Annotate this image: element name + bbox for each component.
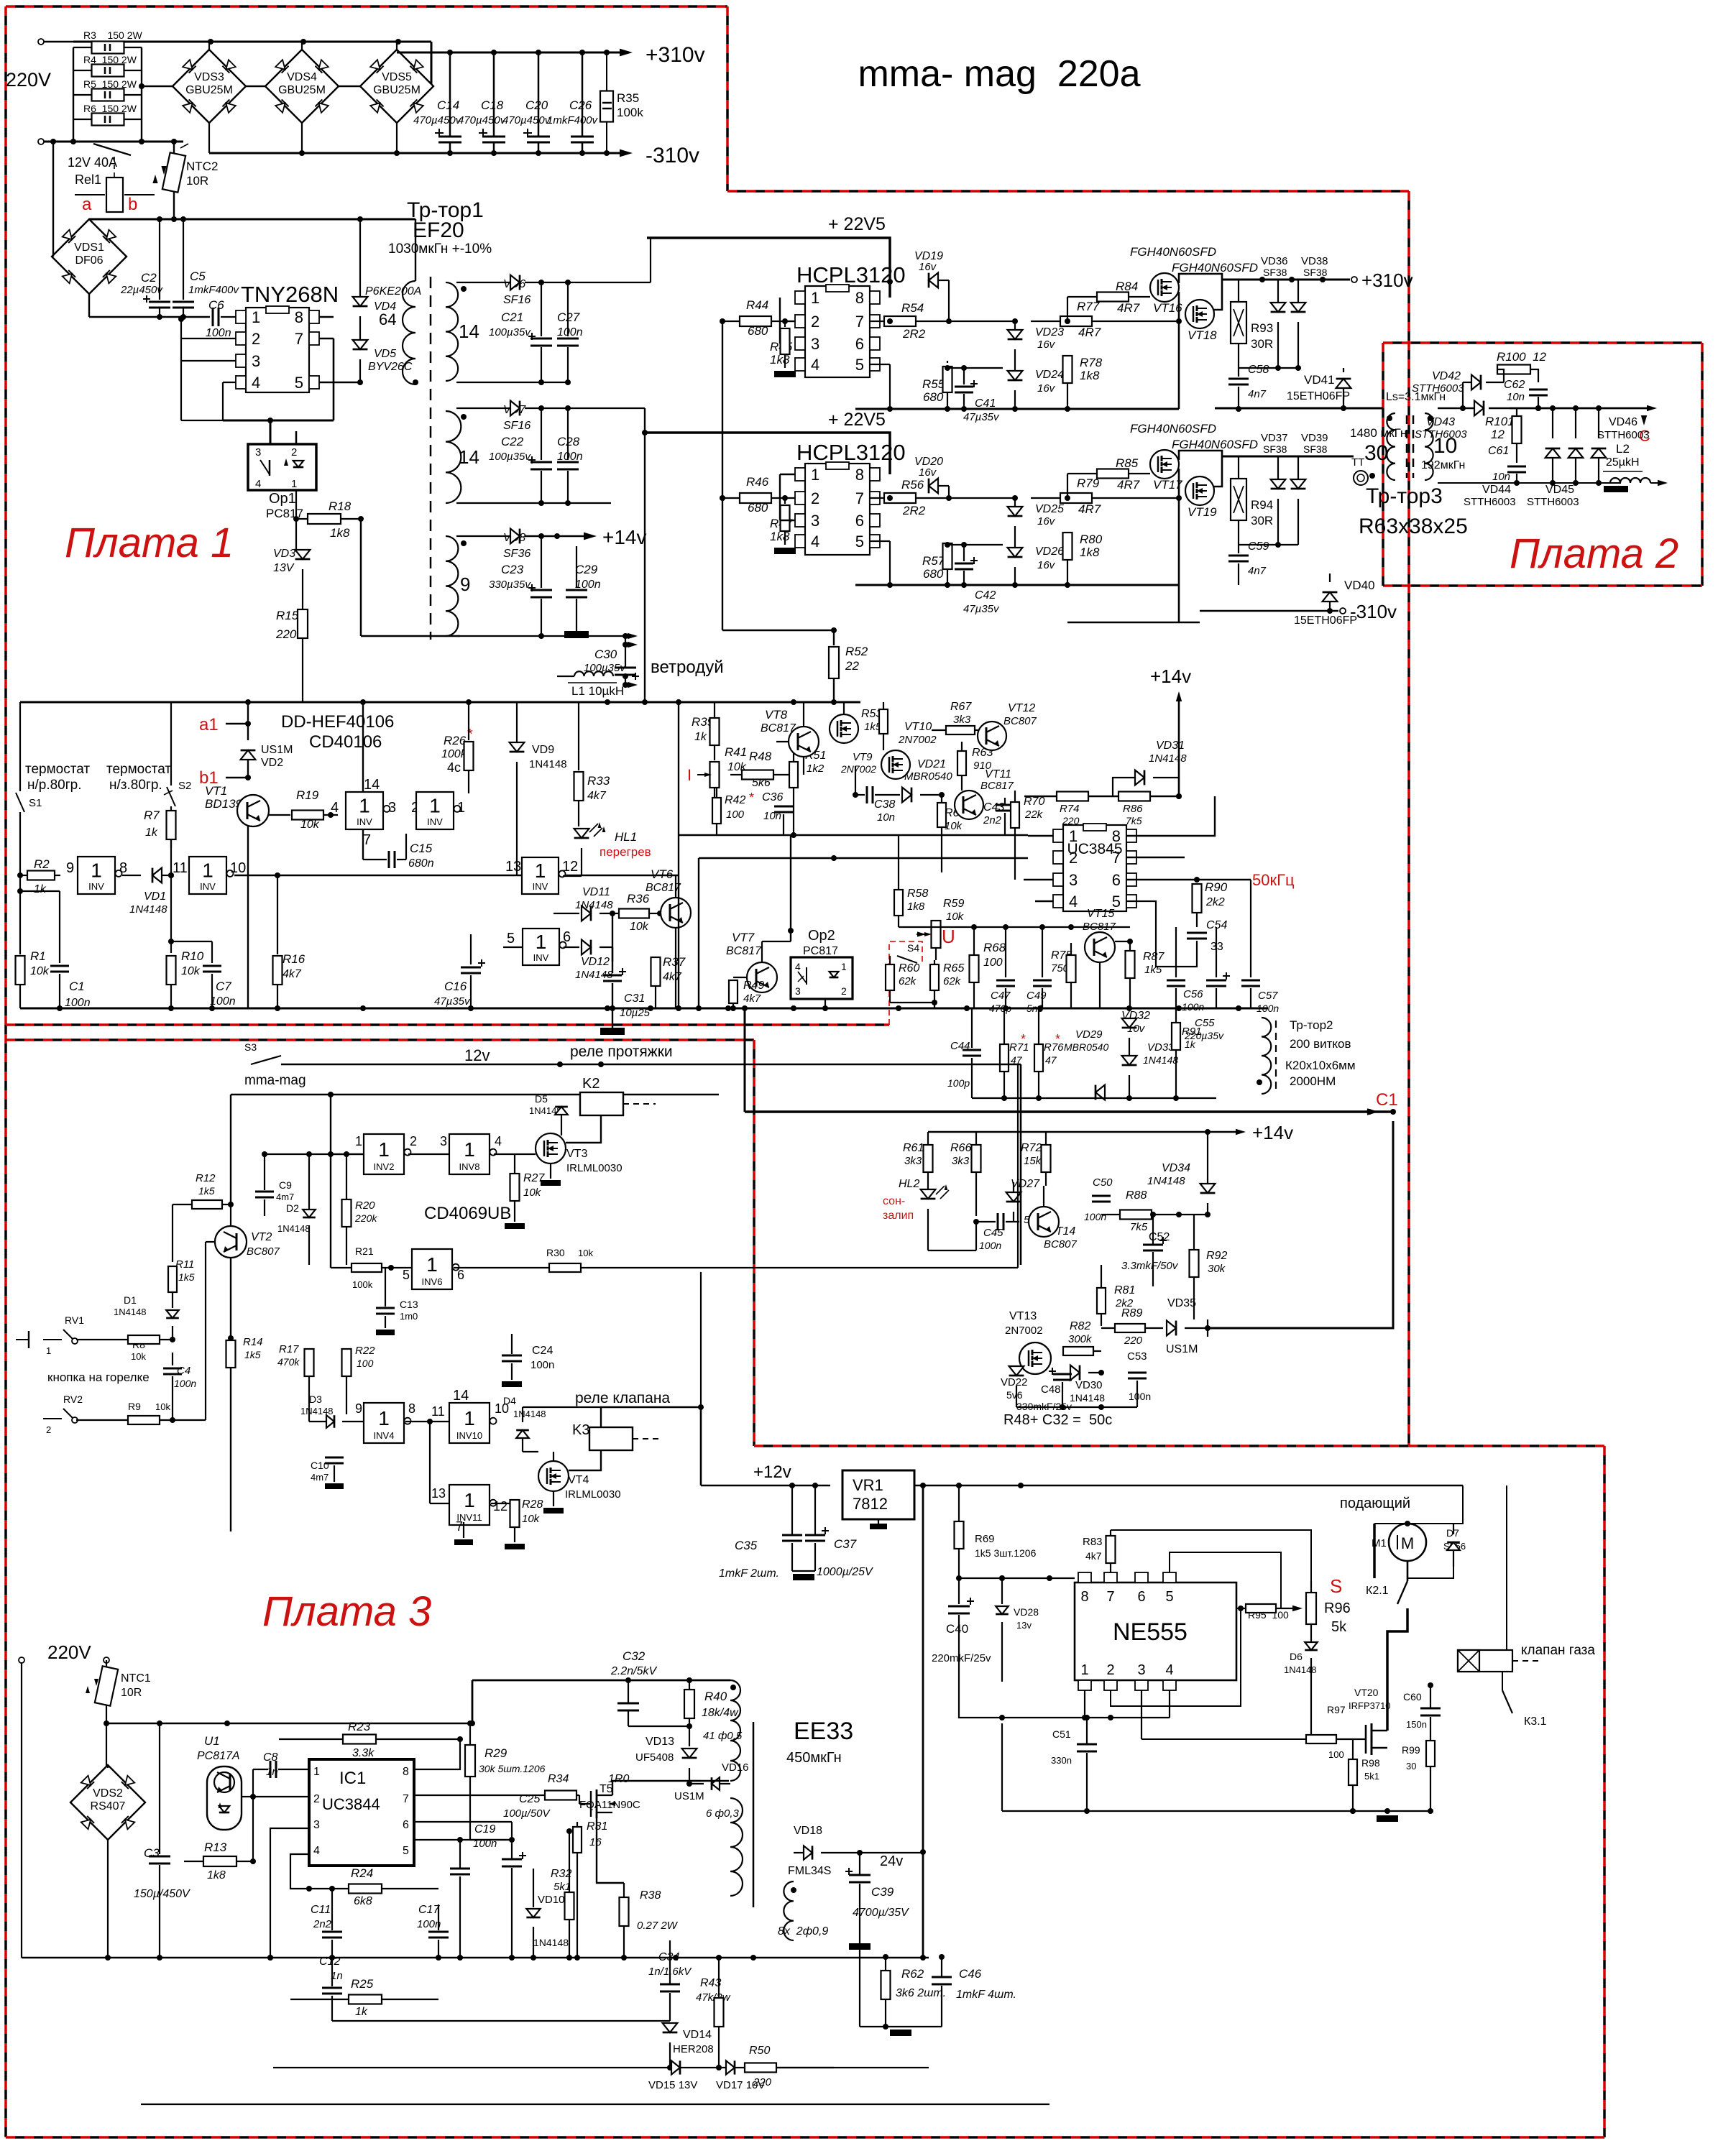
wire long bottom rail [22, 1957, 929, 1959]
svg-text:C24: C24 [532, 1345, 553, 1357]
wire bottom rail Плата1 mid [20, 1008, 1268, 1010]
svg-text:4R7: 4R7 [1117, 301, 1140, 315]
wire lower long rails [141, 2104, 1049, 2105]
bridge rectifier VDS2 RS407 [70, 1765, 145, 1840]
wire NE555 pin2 loop R95 [1111, 1608, 1241, 1706]
ground bar Плата2 [1604, 486, 1628, 492]
svg-text:1k: 1k [1185, 1038, 1196, 1050]
svg-text:C38: C38 [874, 798, 895, 811]
capacitor C47 470p [1005, 927, 1006, 977]
wire VD35 node to right [1207, 1319, 1208, 1337]
wire VT17/19 sources down to -310 bus [1178, 469, 1180, 622]
svg-text:220V: 220V [6, 69, 51, 91]
wire 220V left input down [21, 1663, 22, 1958]
svg-text:R11: R11 [175, 1258, 194, 1271]
svg-text:VD25: VD25 [1035, 503, 1064, 515]
bridge rectifier VDS1 DF06 [52, 219, 127, 294]
svg-text:BC807: BC807 [1003, 715, 1037, 727]
svg-text:3: 3 [795, 985, 801, 997]
svg-text:HER208: HER208 [673, 2043, 714, 2055]
svg-text:2n2: 2n2 [313, 1918, 332, 1930]
transistor VT3 IRLML0030 mosfet [536, 1133, 566, 1164]
label +14v arrow [584, 533, 597, 540]
svg-text:US1M: US1M [674, 1790, 704, 1802]
svg-text:SF38: SF38 [1263, 443, 1287, 455]
wire resistor ladder rails [73, 47, 74, 142]
svg-text:3: 3 [255, 446, 261, 459]
svg-text:1N4148: 1N4148 [1070, 1392, 1105, 1404]
svg-text:1m0: 1m0 [400, 1311, 418, 1322]
svg-text:6: 6 [1137, 1589, 1145, 1605]
svg-text:U1: U1 [204, 1734, 220, 1748]
NE555 pins bottom 1 2 3 4 [1078, 1680, 1091, 1690]
board outline Плата 3 top-right horizontal [754, 1445, 1604, 1447]
svg-text:a1: a1 [199, 715, 219, 734]
svg-text:INV: INV [427, 816, 443, 827]
svg-text:47µ35v: 47µ35v [963, 411, 1000, 423]
svg-text:+ 22V5: + 22V5 [828, 410, 886, 430]
svg-text:R84: R84 [1116, 280, 1138, 293]
wire UC3845 pin8 line [1126, 796, 1215, 836]
wire bottom of C46/R62 [860, 2026, 942, 2027]
svg-text:Op1: Op1 [269, 491, 296, 507]
svg-text:1: 1 [429, 795, 441, 817]
svg-text:VT15: VT15 [1087, 908, 1114, 920]
svg-text:9: 9 [66, 860, 74, 876]
wire mid rail 2812 [332, 2020, 670, 2022]
svg-text:7: 7 [363, 832, 371, 848]
svg-text:D6: D6 [1290, 1651, 1303, 1662]
svg-text:US1M: US1M [261, 744, 293, 756]
svg-text:10k: 10k [630, 921, 649, 933]
svg-text:62k: 62k [943, 975, 962, 987]
svg-text:R57: R57 [922, 554, 945, 568]
svg-text:1: 1 [811, 466, 819, 484]
svg-text:15k: 15k [1024, 1155, 1042, 1167]
svg-text:a: a [82, 195, 92, 214]
svg-text:4: 4 [495, 1134, 502, 1148]
svg-text:2N7002: 2N7002 [898, 734, 937, 746]
svg-text:4n7: 4n7 [1248, 388, 1267, 400]
svg-text:R10: R10 [181, 949, 204, 963]
svg-text:+14v: +14v [1252, 1122, 1293, 1143]
svg-text:14: 14 [459, 446, 479, 468]
wire UC3845 left pins [1028, 835, 1053, 837]
svg-text:INV2: INV2 [374, 1161, 395, 1172]
svg-text:C31: C31 [624, 992, 645, 1005]
svg-text:3: 3 [440, 1134, 447, 1148]
ground R45 [774, 371, 796, 377]
svg-text:4: 4 [811, 533, 819, 550]
svg-text:4k7: 4k7 [1085, 1550, 1102, 1562]
svg-text:2N7002: 2N7002 [1005, 1325, 1043, 1337]
svg-text:8: 8 [295, 308, 303, 326]
svg-text:VD13: VD13 [646, 1736, 674, 1748]
svg-text:R38: R38 [640, 1889, 661, 1902]
wire mid verticals linking [928, 1250, 976, 1251]
svg-text:10k: 10k [578, 1248, 593, 1258]
wire S2 column [170, 702, 172, 786]
wire NE555 pin1/4 links [959, 1682, 1170, 1718]
svg-text:VDS3: VDS3 [194, 71, 224, 83]
thermistor NTC1 10R [95, 1666, 118, 1705]
svg-text:R55: R55 [922, 377, 945, 391]
svg-text:1k5: 1k5 [178, 1271, 195, 1283]
svg-text:4k7: 4k7 [587, 790, 607, 802]
diodes VD36 VD38 SF38 [1271, 303, 1286, 312]
svg-text:C20: C20 [525, 98, 548, 112]
svg-text:4R7: 4R7 [1078, 502, 1101, 516]
wire row y1162 / y1194 rails [679, 834, 1028, 836]
svg-text:2: 2 [1106, 1662, 1114, 1678]
svg-text:C32: C32 [623, 1649, 646, 1663]
arrow C down + label C [1643, 408, 1645, 415]
svg-text:22µ450v: 22µ450v [120, 284, 163, 296]
svg-text:1: 1 [841, 961, 847, 972]
svg-text:CD4069UB: CD4069UB [424, 1204, 511, 1223]
svg-text:22: 22 [845, 659, 859, 673]
wire VT17/VT19 drains [1179, 451, 1222, 460]
resistor R4 [73, 70, 92, 71]
wire NE555 pin5 top loop [1170, 1552, 1298, 1608]
svg-text:4: 4 [331, 800, 339, 816]
svg-text:EF20: EF20 [413, 218, 464, 242]
svg-text:C13: C13 [400, 1299, 418, 1310]
diode VD16 US1M [712, 1777, 720, 1790]
svg-text:1N4148: 1N4148 [513, 1409, 546, 1419]
svg-text:VT19: VT19 [1188, 505, 1217, 519]
svg-text:IC1: IC1 [339, 1769, 366, 1788]
svg-text:C40: C40 [946, 1622, 968, 1636]
diode VD13 UF5408 [682, 1749, 697, 1758]
svg-text:HCPL3120: HCPL3120 [796, 440, 906, 465]
svg-text:MBR0540: MBR0540 [1064, 1041, 1108, 1053]
svg-text:1: 1 [536, 931, 547, 953]
resistor R5 [73, 94, 92, 96]
svg-text:10µ25: 10µ25 [620, 1007, 651, 1019]
svg-text:D3: D3 [309, 1393, 322, 1405]
svg-text:R83: R83 [1083, 1536, 1103, 1548]
svg-text:5: 5 [855, 356, 864, 374]
wire INV2-INV8 row [331, 1153, 364, 1155]
resistor R74 220 [1057, 792, 1088, 801]
svg-text:470p: 470p [989, 1003, 1011, 1014]
resistor R71 47 (star) [1000, 1044, 1009, 1072]
svg-text:C18: C18 [481, 98, 504, 112]
svg-text:S4: S4 [907, 942, 919, 954]
svg-text:1k8: 1k8 [207, 1869, 226, 1881]
wire +14v rail (right mid) [928, 1131, 1236, 1133]
terminal -310v right [1200, 610, 1338, 612]
svg-text:10k: 10k [523, 1187, 542, 1199]
svg-text:INV8: INV8 [459, 1161, 480, 1172]
svg-text:10k: 10k [945, 820, 963, 832]
wire +14v column to UC3845 [1178, 701, 1180, 796]
svg-text:680: 680 [923, 390, 944, 404]
svg-text:DD-HEF40106: DD-HEF40106 [281, 712, 394, 732]
wire winding1 bottom [456, 382, 568, 383]
svg-text:RV1: RV1 [65, 1314, 84, 1326]
svg-text:C48: C48 [1041, 1383, 1061, 1396]
svg-text:R93: R93 [1251, 321, 1273, 335]
svg-text:4k7: 4k7 [282, 968, 302, 980]
bridge rectifier VDS5 GBU25M [396, 42, 398, 50]
svg-text:30R: 30R [1251, 337, 1273, 351]
svg-text:UC3845: UC3845 [1067, 841, 1122, 857]
svg-text:1N4148: 1N4148 [1149, 752, 1187, 765]
svg-text:R14: R14 [243, 1336, 263, 1348]
board outline left edge [4, 6, 7, 2137]
svg-text:4: 4 [1069, 893, 1078, 911]
wire INV11 links [429, 1422, 431, 1503]
svg-text:R17: R17 [279, 1343, 299, 1355]
svg-text:1: 1 [811, 289, 819, 307]
svg-text:VDS2: VDS2 [93, 1787, 123, 1800]
svg-text:R96: R96 [1324, 1600, 1351, 1616]
svg-text:13v: 13v [1016, 1620, 1032, 1631]
wire long rail y977 [20, 701, 860, 704]
svg-text:4: 4 [1165, 1662, 1173, 1678]
svg-text:2: 2 [313, 1793, 320, 1805]
svg-text:R23: R23 [348, 1720, 371, 1733]
svg-text:1N4148: 1N4148 [129, 903, 167, 916]
svg-text:4R7: 4R7 [1078, 326, 1101, 339]
board outline Плата 1 step horizontal [727, 190, 1409, 193]
wire VT6 collector/emitter [675, 928, 676, 1008]
svg-text:R59: R59 [943, 898, 964, 910]
svg-text:C50: C50 [1093, 1176, 1113, 1189]
svg-text:C29: C29 [575, 563, 598, 576]
svg-text:R69: R69 [975, 1533, 995, 1545]
svg-text:R40: R40 [704, 1690, 727, 1703]
svg-text:R1: R1 [30, 949, 46, 963]
svg-text:К3.1: К3.1 [1524, 1715, 1547, 1728]
svg-text:NTC2: NTC2 [186, 160, 218, 173]
wire verticals to rails [678, 702, 679, 1008]
svg-text:mma-mag: mma-mag [244, 1073, 306, 1088]
svg-text:C1: C1 [69, 980, 85, 993]
svg-text:R67: R67 [950, 701, 972, 713]
transformer Тр-тор1 secondary 14 (2) [446, 411, 461, 503]
svg-text:VD22: VD22 [1001, 1376, 1028, 1388]
svg-text:R54: R54 [901, 301, 924, 315]
svg-text:12: 12 [493, 1499, 507, 1514]
svg-text:R76: R76 [1044, 1041, 1064, 1054]
svg-text:1480 мкГн: 1480 мкГн [1350, 426, 1407, 440]
thermistor NTC2 10R [162, 152, 185, 192]
svg-text:100n: 100n [174, 1378, 196, 1389]
wire Op1 connections [295, 431, 298, 444]
resistor R93 30R [1231, 302, 1246, 344]
wire VD16 to T5 node [689, 1780, 701, 1782]
IC1 UC3844 box [309, 1759, 414, 1866]
wire right column to +12v [700, 1407, 702, 1485]
svg-text:R33: R33 [587, 774, 610, 788]
svg-text:C60: C60 [1403, 1691, 1422, 1703]
svg-text:3k3: 3k3 [904, 1155, 922, 1167]
diode VD9 1N4148 [516, 702, 518, 742]
svg-text:4c: 4c [447, 760, 461, 775]
svg-text:2000НМ: 2000НМ [1290, 1074, 1336, 1088]
board outline Плата 3 top edge [6, 1038, 754, 1041]
svg-text:16v: 16v [1037, 338, 1056, 351]
svg-text:0.27 2W: 0.27 2W [637, 1920, 679, 1932]
svg-text:INV: INV [357, 816, 372, 827]
svg-text:24v: 24v [880, 1853, 903, 1869]
svg-text:н/р.80гр.: н/р.80гр. [27, 778, 82, 793]
svg-text:SF38: SF38 [1303, 267, 1328, 278]
svg-text:8: 8 [855, 466, 864, 484]
svg-text:VD14: VD14 [683, 2029, 712, 2041]
svg-text:M: M [1401, 1534, 1414, 1552]
svg-text:16v: 16v [1037, 559, 1056, 571]
svg-text:R86: R86 [1123, 803, 1143, 815]
svg-text:1k5 3шт.1206: 1k5 3шт.1206 [975, 1547, 1037, 1559]
svg-text:K3: K3 [572, 1422, 589, 1438]
wire VT16/VT18 drains to +310 [1179, 274, 1222, 283]
capacitor C57 100n [1250, 880, 1251, 977]
svg-text:1mkF 2шт.: 1mkF 2шт. [719, 1567, 779, 1580]
wire +22V5 ch1 riser [568, 282, 651, 283]
svg-text:VD10: VD10 [538, 1894, 565, 1906]
capacitor C56 100n [1175, 927, 1177, 977]
wire R18 right vertical [360, 519, 362, 636]
bridge rectifier VDS4 GBU25M [301, 42, 303, 50]
diode VD15 13V [671, 2060, 680, 2074]
svg-text:5: 5 [403, 1845, 409, 1857]
diode VD33 1N4148 [1122, 1056, 1137, 1065]
wire +22V5 lower rail [645, 433, 890, 474]
svg-text:C14: C14 [437, 98, 459, 112]
svg-text:12: 12 [1491, 428, 1505, 441]
svg-text:+310v: +310v [646, 43, 705, 67]
svg-text:перегрев: перегрев [600, 845, 651, 859]
svg-text:14: 14 [453, 1388, 469, 1404]
svg-text:CD40106: CD40106 [309, 732, 382, 752]
svg-text:1: 1 [378, 1138, 390, 1161]
svg-text:30k 5шт.1206: 30k 5шт.1206 [479, 1763, 546, 1774]
svg-text:100n: 100n [210, 995, 236, 1008]
svg-text:FGH40N60SFD: FGH40N60SFD [1172, 261, 1258, 275]
wire 12v top rail [281, 1064, 1021, 1066]
diode VD10 1N4148 [526, 1909, 540, 1917]
svg-text:IRLML0030: IRLML0030 [565, 1488, 621, 1501]
svg-text:1k: 1k [694, 731, 707, 743]
svg-text:VD42: VD42 [1432, 370, 1461, 382]
svg-text:8: 8 [119, 860, 127, 876]
svg-text:VD5: VD5 [374, 348, 396, 360]
svg-text:L1 10µkH: L1 10µkH [571, 684, 624, 698]
svg-text:3: 3 [811, 335, 819, 353]
svg-text:1k: 1k [34, 883, 47, 895]
svg-text:I: I [687, 766, 692, 784]
svg-text:R65: R65 [943, 962, 964, 975]
svg-text:100p: 100p [947, 1077, 970, 1089]
transformer EE33 primary winding [730, 1680, 740, 1781]
svg-text:C37: C37 [834, 1537, 857, 1551]
svg-text:470µ450v: 470µ450v [458, 114, 507, 126]
svg-text:R94: R94 [1251, 498, 1273, 512]
svg-text:VT10: VT10 [904, 721, 932, 733]
wire long vertical x=975 K3 to VR1 rail [700, 1272, 702, 1407]
svg-text:К20х10х6мм: К20х10х6мм [1285, 1059, 1356, 1072]
wire Плата2 bottom rail [1438, 482, 1621, 484]
svg-text:VD35: VD35 [1167, 1297, 1196, 1309]
svg-text:2: 2 [291, 446, 297, 459]
svg-text:+310v: +310v [1361, 269, 1413, 291]
svg-text:VT1: VT1 [205, 784, 227, 798]
svg-text:NTC1: NTC1 [121, 1672, 151, 1685]
IC UC3845 [1063, 825, 1126, 911]
svg-text:7k5: 7k5 [1126, 815, 1142, 826]
svg-text:IRLML0030: IRLML0030 [566, 1162, 623, 1174]
wire UC3845 pin6 line [1126, 879, 1251, 880]
wire NTC1 down / rail [106, 1723, 107, 1768]
svg-text:47µ35v: 47µ35v [963, 603, 1000, 615]
svg-text:VD21: VD21 [917, 758, 946, 770]
wire VT1 emitter down [247, 826, 249, 1008]
svg-text:100µ35v: 100µ35v [489, 451, 531, 463]
svg-text:R24: R24 [351, 1866, 373, 1880]
svg-text:1R0: 1R0 [608, 1773, 629, 1785]
svg-text:C26: C26 [569, 98, 592, 112]
svg-text:VR1: VR1 [853, 1476, 883, 1494]
wire VT2 emitter to rail [230, 1095, 231, 1204]
wire R57/C42 top link [947, 544, 1003, 545]
svg-text:S2: S2 [178, 780, 191, 792]
svg-text:VT7: VT7 [732, 931, 755, 944]
svg-text:1: 1 [359, 795, 370, 817]
svg-text:R85: R85 [1116, 456, 1139, 470]
svg-text:47: 47 [1045, 1054, 1057, 1066]
svg-text:S: S [1330, 1575, 1342, 1597]
svg-text:1: 1 [355, 1134, 362, 1148]
resistor R3 [73, 47, 92, 48]
svg-text:FGH40N60SFD: FGH40N60SFD [1130, 422, 1216, 436]
svg-text:220: 220 [753, 2076, 772, 2088]
diode VD40 15ETH06FP [1323, 592, 1338, 602]
svg-text:1k8: 1k8 [907, 900, 925, 913]
svg-text:100n: 100n [530, 1359, 554, 1371]
svg-text:R50: R50 [749, 2045, 770, 2057]
wire NE555 top rail [959, 1577, 1075, 1579]
svg-text:+14v: +14v [602, 526, 647, 548]
svg-text:R66: R66 [950, 1142, 971, 1154]
svg-text:12: 12 [562, 859, 578, 875]
wire winding3 bottom / ветродуй node [456, 635, 541, 637]
svg-text:10k: 10k [946, 911, 965, 923]
transformer Тр-тор3 core [1406, 415, 1408, 478]
wire VD15 row [273, 2067, 834, 2068]
svg-text:4n7: 4n7 [1248, 565, 1267, 577]
svg-text:3.3mkF/50v: 3.3mkF/50v [1121, 1260, 1179, 1272]
diodes VD44 VD45 VD-extra [1545, 448, 1561, 458]
wire inverter row output [234, 875, 679, 876]
diode VD14 HER208 [663, 2023, 678, 2032]
winding 8x 2ф0,9 [784, 1881, 794, 1940]
svg-text:R34: R34 [548, 1773, 569, 1785]
svg-text:5: 5 [507, 931, 515, 946]
svg-text:15ETH06FP: 15ETH06FP [1294, 614, 1357, 627]
svg-text:VT12: VT12 [1008, 702, 1035, 714]
svg-text:16v: 16v [919, 466, 937, 479]
wire HCPL input feed vertical x1005 [722, 321, 723, 630]
svg-text:16v: 16v [919, 261, 937, 273]
svg-text:+14v: +14v [1150, 665, 1191, 687]
transformer Тр-тор2 winding [1262, 1018, 1271, 1094]
svg-text:MBR0540: MBR0540 [904, 770, 952, 783]
svg-text:R68: R68 [983, 941, 1006, 954]
